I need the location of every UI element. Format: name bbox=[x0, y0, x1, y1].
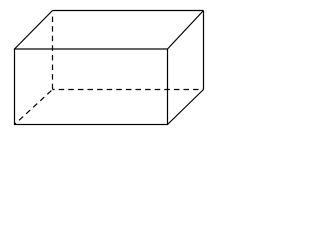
top-right depth edge bbox=[168, 11, 204, 50]
front face bbox=[15, 49, 168, 125]
bottom-right depth edge bbox=[168, 90, 204, 125]
back right vertical edge bbox=[203, 11, 205, 90]
hidden back bottom edge (dashed) bbox=[53, 89, 204, 91]
top-left depth edge bbox=[15, 11, 53, 50]
cuboid line drawing bbox=[0, 0, 216, 137]
hidden bottom-left depth edge (dashed) bbox=[15, 90, 53, 125]
hidden back-left vertical edge (dashed) bbox=[52, 17, 54, 90]
back top edge bbox=[53, 10, 204, 12]
